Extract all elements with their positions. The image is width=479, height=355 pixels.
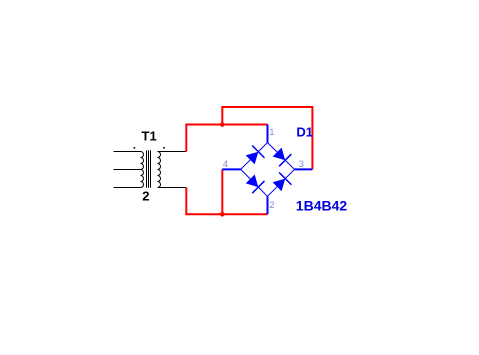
wire: secondary top to bridge pin 1 [186, 125, 267, 152]
svg-text:D1: D1 [296, 124, 313, 139]
svg-text:1B4B42: 1B4B42 [296, 197, 348, 213]
D1 pin 2 stub [267, 196, 269, 214]
red net wires [186, 107, 312, 214]
svg-text:1: 1 [269, 127, 274, 138]
wire: T1 primary centre-tap lead [114, 169, 141, 171]
D1 pin 1 stub [267, 125, 269, 143]
diode 1-to-3 (upper right) [273, 148, 292, 167]
svg-text:3: 3 [299, 159, 304, 170]
wire: branch from bottom net up to bridge pin 4 [221, 169, 223, 214]
wire: T1 primary bottom lead [114, 187, 141, 189]
wire: T1 secondary top lead [158, 151, 187, 153]
wire: T1 primary top lead [114, 151, 141, 153]
svg-text:4: 4 [223, 159, 228, 170]
T1 core line 3 [150, 150, 152, 187]
T1 secondary polarity dot [163, 147, 165, 149]
svg-text:T1: T1 [142, 129, 157, 144]
diode 4-to-1 (upper left) [246, 146, 265, 165]
diode 2-to-3 (lower right) [273, 172, 292, 191]
junction dot top [220, 122, 225, 127]
transformer T1 [114, 150, 187, 187]
T1 primary polarity dot [134, 147, 136, 149]
svg-text:2: 2 [269, 200, 274, 211]
T1 secondary winding coil [158, 152, 161, 188]
wire: branch up over to bridge pin 3 [222, 107, 312, 169]
diode 4-to-2 (lower left) [246, 175, 265, 194]
bridge rectifier D1 [222, 125, 312, 215]
T1 core line 1 [146, 150, 148, 187]
D1 pin 4 stub [222, 168, 240, 170]
D1 pin 3 stub [295, 168, 313, 170]
junction dot bottom [220, 212, 225, 217]
svg-text:2: 2 [142, 189, 149, 204]
wire: T1 secondary bottom lead [158, 187, 187, 189]
wire: secondary bottom to bridge pin 2 [186, 188, 267, 215]
T1 core line 2 [148, 150, 150, 187]
D1 diamond outline [241, 143, 295, 197]
T1 primary winding coil [141, 152, 144, 188]
